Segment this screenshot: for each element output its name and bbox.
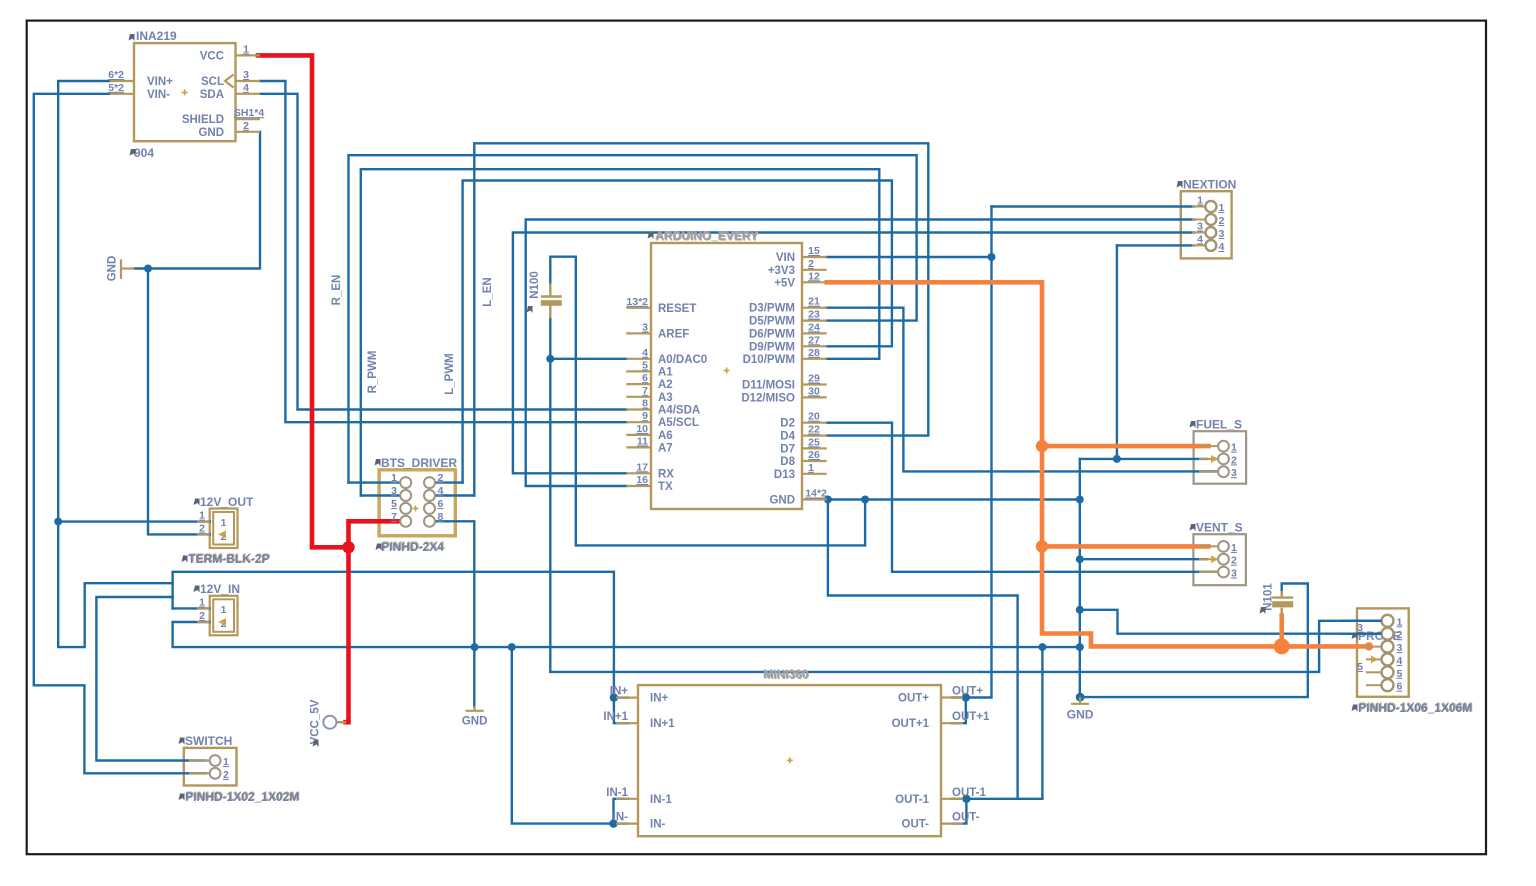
svg-text:RX: RX: [658, 468, 674, 480]
svg-text:A4/SDA: A4/SDA: [658, 405, 700, 417]
svg-text:GND: GND: [462, 716, 488, 728]
svg-text:28: 28: [808, 347, 820, 359]
svg-text:RESET: RESET: [658, 303, 696, 315]
svg-text:17: 17: [636, 461, 648, 473]
svg-text:16: 16: [636, 474, 648, 486]
svg-text:2: 2: [199, 522, 205, 534]
svg-text:A0/DAC0: A0/DAC0: [658, 354, 707, 366]
svg-text:PINHD-2X4: PINHD-2X4: [381, 540, 444, 554]
svg-text:D12/MISO: D12/MISO: [741, 392, 795, 404]
svg-text:20: 20: [808, 411, 820, 423]
svg-text:OUT-1: OUT-1: [895, 794, 929, 806]
svg-text:BTS_DRIVER: BTS_DRIVER: [381, 456, 457, 470]
svg-text:2: 2: [243, 120, 249, 132]
svg-text:2: 2: [223, 769, 229, 781]
svg-text:A3: A3: [658, 392, 673, 404]
svg-text:SDA: SDA: [200, 89, 224, 101]
svg-text:5: 5: [391, 498, 397, 510]
svg-text:6: 6: [438, 498, 444, 510]
svg-text:4: 4: [1219, 241, 1225, 253]
svg-text:7: 7: [642, 385, 648, 397]
svg-text:AREF: AREF: [658, 328, 689, 340]
svg-text:D9/PWM: D9/PWM: [749, 341, 795, 353]
svg-text:N100: N100: [529, 271, 541, 299]
svg-text:4: 4: [243, 82, 249, 94]
svg-text:4: 4: [1197, 233, 1203, 245]
svg-text:21: 21: [808, 296, 820, 308]
svg-text:OUT-: OUT-: [902, 819, 930, 831]
svg-text:IN+: IN+: [610, 686, 629, 698]
svg-text:VCC_5V: VCC_5V: [310, 699, 322, 744]
svg-text:2: 2: [1231, 555, 1237, 567]
svg-text:IN-1: IN-1: [606, 787, 628, 799]
svg-text:GND: GND: [1067, 708, 1094, 722]
svg-text:SCL: SCL: [201, 76, 224, 88]
svg-text:OUT+1: OUT+1: [892, 718, 930, 730]
svg-text:30: 30: [808, 385, 820, 397]
svg-text:D2: D2: [780, 418, 795, 430]
svg-text:IN-1: IN-1: [650, 794, 672, 806]
svg-text:IN+: IN+: [650, 693, 669, 705]
svg-text:A6: A6: [658, 430, 673, 442]
svg-text:24: 24: [808, 321, 820, 333]
svg-text:IN+1: IN+1: [650, 718, 675, 730]
svg-text:SHIELD: SHIELD: [182, 114, 224, 126]
svg-text:TERM-BLK-2P: TERM-BLK-2P: [188, 552, 269, 566]
svg-text:3: 3: [1219, 228, 1225, 240]
svg-text:D7: D7: [780, 443, 795, 455]
svg-text:4: 4: [1397, 655, 1403, 667]
svg-text:6: 6: [1397, 681, 1403, 693]
svg-text:A2: A2: [658, 379, 673, 391]
svg-text:1: 1: [1197, 195, 1203, 207]
svg-text:4: 4: [438, 485, 444, 497]
svg-text:1: 1: [391, 472, 397, 484]
svg-text:8: 8: [642, 398, 648, 410]
svg-text:OUT+: OUT+: [898, 693, 929, 705]
svg-text:D13: D13: [774, 469, 795, 481]
svg-text:22: 22: [808, 424, 820, 436]
svg-text:12V_IN: 12V_IN: [200, 582, 240, 596]
svg-text:+3V3: +3V3: [768, 265, 795, 277]
svg-text:GND: GND: [198, 127, 224, 139]
svg-text:N101: N101: [1263, 583, 1275, 611]
svg-text:3: 3: [642, 321, 648, 333]
svg-text:3: 3: [243, 69, 249, 81]
svg-text:1: 1: [221, 604, 227, 616]
svg-text:VIN+: VIN+: [147, 76, 173, 88]
svg-text:PINHD-1X06_1X06M: PINHD-1X06_1X06M: [1358, 701, 1472, 715]
svg-text:1: 1: [223, 756, 229, 768]
svg-text:3: 3: [1397, 642, 1403, 654]
svg-text:D11/MOSI: D11/MOSI: [742, 380, 795, 392]
svg-text:23: 23: [808, 309, 820, 321]
svg-text:4: 4: [642, 347, 648, 359]
svg-text:5: 5: [642, 359, 648, 371]
svg-text:IN-: IN-: [650, 819, 666, 831]
svg-text:OUT+1: OUT+1: [952, 711, 990, 723]
svg-text:3: 3: [1231, 467, 1237, 479]
svg-text:D5/PWM: D5/PWM: [749, 316, 795, 328]
svg-text:VIN: VIN: [776, 252, 795, 264]
svg-text:1: 1: [1397, 616, 1403, 628]
svg-text:15: 15: [808, 245, 820, 257]
svg-text:VCC: VCC: [200, 50, 224, 62]
svg-text:A5/SCL: A5/SCL: [658, 417, 699, 429]
svg-text:+5V: +5V: [774, 277, 795, 289]
svg-text:12: 12: [808, 270, 820, 282]
svg-text:ARDUINO_EVERY: ARDUINO_EVERY: [655, 229, 758, 243]
svg-text:3: 3: [1357, 622, 1363, 634]
svg-text:INA219: INA219: [136, 29, 177, 43]
svg-text:D3/PWM: D3/PWM: [749, 303, 795, 315]
svg-text:A1: A1: [658, 366, 673, 378]
svg-text:11: 11: [637, 435, 648, 447]
svg-text:7: 7: [391, 511, 397, 523]
svg-text:6: 6: [642, 372, 648, 384]
svg-text:IN+1: IN+1: [603, 711, 628, 723]
svg-text:R_PWM: R_PWM: [367, 351, 379, 394]
svg-text:5*2: 5*2: [108, 82, 124, 94]
svg-text:D10/PWM: D10/PWM: [743, 354, 795, 366]
svg-text:3: 3: [1231, 568, 1237, 580]
svg-text:1: 1: [1219, 202, 1225, 214]
svg-text:2: 2: [808, 258, 814, 270]
svg-text:1: 1: [1231, 442, 1237, 454]
svg-text:6*2: 6*2: [108, 69, 124, 81]
svg-text:9: 9: [642, 410, 648, 422]
svg-text:D4: D4: [780, 431, 795, 443]
svg-text:GND: GND: [107, 256, 119, 282]
svg-text:26: 26: [808, 449, 820, 461]
svg-text:FUEL_S: FUEL_S: [1196, 418, 1242, 432]
svg-text:SH1*4: SH1*4: [234, 107, 265, 119]
svg-text:5: 5: [1357, 661, 1363, 673]
svg-text:VENT_S: VENT_S: [1196, 521, 1243, 535]
svg-text:1: 1: [1231, 542, 1237, 554]
svg-text:12V_OUT: 12V_OUT: [200, 495, 254, 509]
svg-text:L_EN: L_EN: [482, 277, 494, 306]
svg-text:5: 5: [1397, 668, 1403, 680]
svg-text:25: 25: [808, 436, 820, 448]
svg-text:1: 1: [808, 462, 814, 474]
svg-text:27: 27: [808, 334, 820, 346]
svg-text:VIN-: VIN-: [147, 89, 170, 101]
svg-text:1: 1: [199, 596, 205, 608]
svg-text:NEXTION: NEXTION: [1183, 178, 1236, 192]
svg-text:D8: D8: [780, 456, 795, 468]
svg-text:14*2: 14*2: [805, 488, 827, 500]
svg-text:A7: A7: [658, 442, 673, 454]
svg-text:2: 2: [199, 610, 205, 622]
svg-text:3: 3: [391, 485, 397, 497]
svg-text:OUT+: OUT+: [952, 686, 983, 698]
svg-text:L_PWM: L_PWM: [444, 353, 456, 395]
svg-text:1: 1: [221, 517, 227, 529]
svg-text:10: 10: [636, 423, 648, 435]
svg-text:D6/PWM: D6/PWM: [749, 328, 795, 340]
svg-text:2: 2: [1231, 454, 1237, 466]
svg-text:OUT-: OUT-: [952, 812, 980, 824]
svg-text:8: 8: [438, 511, 444, 523]
svg-text:OUT-1: OUT-1: [952, 787, 986, 799]
svg-text:3: 3: [1197, 221, 1203, 233]
svg-text:TX: TX: [658, 481, 673, 493]
svg-text:13*2: 13*2: [626, 296, 648, 308]
svg-text:904: 904: [134, 146, 154, 160]
svg-text:IN-: IN-: [613, 812, 629, 824]
svg-text:SWITCH: SWITCH: [185, 734, 232, 748]
svg-text:R_EN: R_EN: [331, 275, 343, 306]
svg-text:2: 2: [1219, 215, 1225, 227]
svg-text:1: 1: [243, 43, 249, 55]
svg-text:PINHD-1X02_1X02M: PINHD-1X02_1X02M: [185, 790, 299, 804]
svg-text:2: 2: [438, 472, 444, 484]
svg-text:GND: GND: [769, 495, 795, 507]
svg-text:MINI360: MINI360: [763, 667, 809, 681]
svg-text:1: 1: [199, 510, 205, 522]
svg-text:2: 2: [1397, 629, 1403, 641]
svg-text:29: 29: [808, 373, 820, 385]
